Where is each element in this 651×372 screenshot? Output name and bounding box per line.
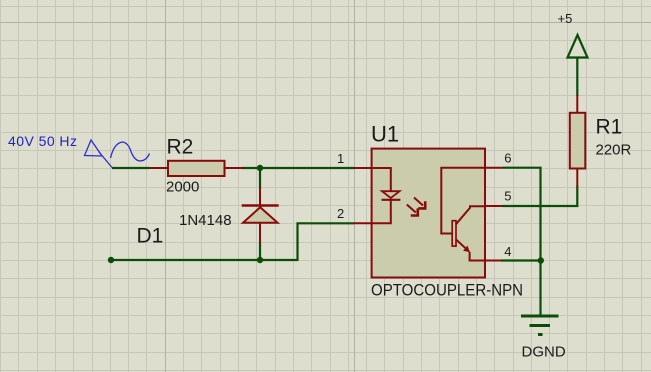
resistor R2 leads [149, 167, 243, 169]
U1 light arrow 2 [407, 205, 418, 216]
U1 internal LED wiring [372, 168, 391, 192]
U1 internal LED cathode bar [382, 199, 401, 201]
junction node at D1 anode / bottom rail [257, 257, 263, 263]
wire +5 to R1 [576, 57, 578, 96]
svg-text:OPTOCOUPLER-NPN: OPTOCOUPLER-NPN [371, 281, 523, 300]
transistor emitter [456, 240, 466, 249]
wire opto pin 5 to R1 [503, 186, 578, 206]
power +5 symbol triangle [568, 35, 588, 58]
svg-text:D1: D1 [137, 225, 164, 248]
svg-text:5: 5 [504, 189, 511, 204]
pin 1 stub [354, 167, 372, 169]
svg-text:2000: 2000 [166, 179, 199, 196]
wire node to diode cathode [259, 167, 261, 188]
transistor collector [456, 206, 485, 224]
svg-text:40V 50 Hz: 40V 50 Hz [8, 133, 77, 149]
diode D1 triangle [243, 207, 278, 223]
svg-text:4: 4 [504, 244, 511, 259]
pin 2 stub [354, 222, 372, 224]
wire R2 to opto pin 1 [242, 167, 354, 169]
svg-text:1: 1 [337, 151, 344, 166]
resistor R2 [168, 161, 225, 176]
pin 4 stub [485, 260, 501, 262]
resistor R1 leads [576, 95, 578, 187]
svg-text:6: 6 [504, 151, 511, 166]
svg-text:R1: R1 [596, 116, 623, 139]
transistor emitter arrowhead [463, 246, 470, 253]
wire diode anode to bottom rail [259, 242, 261, 260]
wire opto pin 6 to ground rail [503, 168, 541, 315]
svg-text:220R: 220R [596, 142, 632, 159]
transistor base bar [452, 221, 456, 246]
svg-text:R2: R2 [167, 136, 194, 159]
pin 6 stub [485, 167, 503, 169]
U1 internal base feed wiring [441, 168, 485, 234]
AC source sine wave [111, 142, 150, 161]
op-amp U1 optocoupler box [372, 149, 485, 278]
AC source triangle [85, 140, 103, 156]
svg-text:+5: +5 [558, 11, 573, 26]
diode D1 leads [259, 187, 261, 243]
ground symbol [521, 316, 559, 335]
terminal node bottom-left [108, 257, 114, 263]
wire bottom rail [111, 259, 298, 261]
opto pin stubs [354, 168, 503, 261]
junction node at R2 output / D1 cathode [257, 165, 263, 171]
diode D1 cathode bar [242, 204, 279, 207]
wire bottom rail to opto pin 2 [298, 223, 355, 261]
wire opto pin 4 to ground rail [501, 259, 541, 261]
svg-text:DGND: DGND [522, 344, 566, 361]
pin 5 stub [485, 205, 503, 207]
U1 internal LED to pin2 wiring [372, 200, 391, 224]
resistor R1 [570, 113, 586, 169]
svg-text:U1: U1 [371, 122, 399, 147]
svg-text:2: 2 [337, 206, 344, 221]
junction node at pin4 / ground rail [538, 257, 544, 263]
svg-text:1N4148: 1N4148 [179, 212, 232, 229]
U1 internal LED triangle [382, 191, 400, 198]
wire AC source to R2 [112, 167, 149, 169]
AC source lead line [99, 152, 112, 168]
U1 light arrow 1 [414, 198, 425, 209]
